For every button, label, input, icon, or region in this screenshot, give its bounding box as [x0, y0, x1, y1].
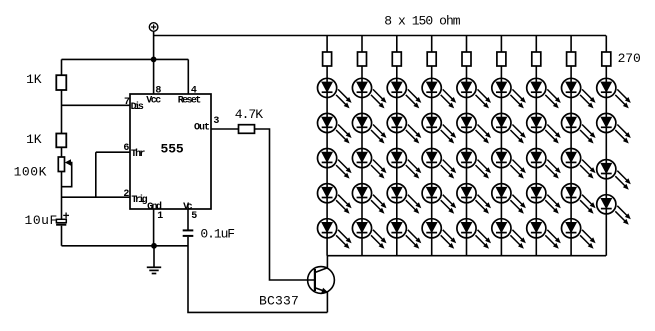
- LED column 8 row 4: [562, 184, 596, 214]
- svg-text:2: 2: [123, 189, 129, 200]
- LED column 4 row 1: [422, 78, 456, 108]
- svg-text:Out: Out: [194, 122, 210, 133]
- LED column 4 row 3: [422, 149, 456, 179]
- LED column 7 row 3: [527, 149, 561, 179]
- wire LED column 7 vertical: [535, 36, 537, 256]
- capacitor C2 0.1uF: [183, 230, 194, 236]
- wire LED column 2 vertical: [361, 36, 363, 256]
- junction node ground: [151, 243, 157, 249]
- resistor R4 4.7K: [239, 125, 255, 134]
- wire left column from rail to R1: [61, 59, 63, 75]
- wire Vc pin 5 to C2: [187, 209, 189, 230]
- LED column 1 row 4: [318, 184, 352, 214]
- LED column 4 row 5: [422, 219, 456, 249]
- wire pot to C1: [61, 172, 63, 220]
- junction node Vcc branch: [151, 57, 157, 63]
- LED column 7 row 4: [527, 184, 561, 214]
- LED column 2 row 1: [352, 78, 386, 108]
- LED column 3 row 3: [387, 149, 421, 179]
- resistor 150 ohm column 3: [392, 52, 401, 66]
- wire LED column 5 vertical: [466, 36, 468, 256]
- wire R2 to potentiometer: [61, 147, 63, 157]
- wire Thr pin 6 horizontal: [96, 151, 130, 153]
- wire Gnd pin 1 to ground rail: [153, 209, 155, 246]
- LED column 9 row 2: [597, 113, 631, 143]
- resistor 150 ohm column 8: [567, 52, 576, 66]
- resistor R2 1K: [56, 134, 66, 148]
- wire LED column 6 vertical: [500, 36, 502, 256]
- svg-text:4.7K: 4.7K: [235, 107, 264, 122]
- resistor 150 ohm column 1: [323, 52, 332, 66]
- svg-text:5: 5: [191, 211, 197, 222]
- LED column 2 row 3: [352, 149, 386, 179]
- resistor 150 ohm column 2: [358, 52, 367, 66]
- LED column 3 row 4: [387, 184, 421, 214]
- LED column 3 row 5: [387, 219, 421, 249]
- capacitor C1 bottom plate: [56, 224, 66, 226]
- LED column 9 row 3: [597, 160, 631, 190]
- LED column 2 row 5: [352, 219, 386, 249]
- LED column 9 row 1: [597, 78, 631, 108]
- ground symbol: [147, 267, 161, 273]
- transistor Q1 BC337: [308, 267, 335, 294]
- svg-text:100K: 100K: [14, 164, 47, 179]
- LED column 6 row 5: [492, 219, 526, 249]
- plus sign of C1: [63, 213, 69, 219]
- wire LED column 4 vertical: [431, 36, 433, 256]
- svg-text:6: 6: [123, 143, 129, 154]
- wire Vcc branch horizontal: [62, 58, 189, 60]
- wire LED column 3 vertical: [396, 36, 398, 256]
- LED column 5 row 4: [457, 184, 491, 214]
- resistor 150 ohm column 6: [497, 52, 506, 66]
- resistor 150 ohm column 5: [462, 52, 471, 66]
- LED column 3 row 2: [387, 113, 421, 143]
- wire LED column 8 vertical: [570, 36, 572, 256]
- wire Dis pin 7 to left column: [62, 104, 131, 106]
- LED column 1 row 1: [318, 78, 352, 108]
- LED column 2 row 4: [352, 184, 386, 214]
- wire collector of Q1 up to LED matrix rail: [326, 256, 328, 268]
- LED column 1 row 5: [318, 219, 352, 249]
- wire LED column 9 vertical: [605, 36, 607, 256]
- wire Out pin 3 to R4: [211, 128, 239, 130]
- resistor R1 1K: [56, 75, 66, 90]
- LED matrix bottom rail: [327, 255, 606, 257]
- LED column 6 row 2: [492, 113, 526, 143]
- resistor 270 ohm column 9: [602, 52, 611, 66]
- LED column 8 row 1: [562, 78, 596, 108]
- svg-text:1K: 1K: [26, 132, 42, 147]
- svg-text:10uF: 10uF: [25, 213, 58, 228]
- LED column 5 row 2: [457, 113, 491, 143]
- svg-text:555: 555: [161, 141, 184, 156]
- svg-text:BC337: BC337: [259, 294, 299, 309]
- LED column 2 row 2: [352, 113, 386, 143]
- potentiometer wiper arrow: [62, 159, 72, 186]
- LED column 6 row 3: [492, 149, 526, 179]
- wire Reset pin 4 drop: [187, 59, 189, 94]
- wire R4 to base of Q1: [255, 129, 315, 280]
- wire LED column 1 vertical: [326, 36, 328, 256]
- LED column 9 row 4: [597, 195, 631, 225]
- svg-text:8 x 150 ohm: 8 x 150 ohm: [384, 14, 460, 29]
- LED column 4 row 4: [422, 184, 456, 214]
- LED column 8 row 5: [562, 219, 596, 249]
- wire C1 to ground rail: [61, 226, 63, 246]
- power supply positive terminal: [149, 23, 158, 32]
- wire C2 to ground rail and emitter return: [188, 237, 327, 313]
- svg-text:3: 3: [213, 116, 219, 127]
- svg-text:Dis: Dis: [131, 101, 144, 113]
- resistor 150 ohm column 7: [532, 52, 541, 66]
- potentiometer R3 100K body: [58, 157, 64, 172]
- wire emitter of Q1 down: [326, 292, 328, 312]
- wire Trig pin 2 to left column: [62, 196, 131, 198]
- LED column 5 row 1: [457, 78, 491, 108]
- wire Thr to Trig vertical: [95, 152, 97, 197]
- LED column 1 row 2: [318, 113, 352, 143]
- wire R1 to R2: [61, 90, 63, 134]
- svg-text:1: 1: [157, 211, 163, 222]
- LED column 7 row 1: [527, 78, 561, 108]
- ground rail wire: [62, 245, 189, 247]
- LED column 4 row 2: [422, 113, 456, 143]
- svg-text:1K: 1K: [26, 72, 42, 87]
- LED column 6 row 1: [492, 78, 526, 108]
- svg-text:0.1uF: 0.1uF: [200, 227, 235, 242]
- svg-text:Vcc: Vcc: [146, 95, 161, 106]
- LED column 1 row 3: [318, 149, 352, 179]
- wire ground stub: [153, 246, 155, 267]
- svg-text:7: 7: [124, 97, 130, 108]
- svg-text:Thr: Thr: [131, 148, 146, 160]
- resistor 150 ohm column 4: [427, 52, 436, 66]
- wire top supply rail to LED resistors: [154, 35, 606, 37]
- svg-text:270: 270: [618, 51, 641, 66]
- LED column 5 row 5: [457, 219, 491, 249]
- svg-text:Reset: Reset: [178, 95, 202, 106]
- LED column 3 row 1: [387, 78, 421, 108]
- LED column 8 row 3: [562, 149, 596, 179]
- wire from supply down to Vcc node: [153, 31, 155, 94]
- LED column 7 row 5: [527, 219, 561, 249]
- svg-text:Trig: Trig: [131, 194, 147, 206]
- capacitor C1 10uF polarized top plate: [56, 219, 66, 222]
- op IC U1 555 timer body: [130, 94, 211, 209]
- LED column 6 row 4: [492, 184, 526, 214]
- LED column 8 row 2: [562, 113, 596, 143]
- LED column 5 row 3: [457, 149, 491, 179]
- LED column 7 row 2: [527, 113, 561, 143]
